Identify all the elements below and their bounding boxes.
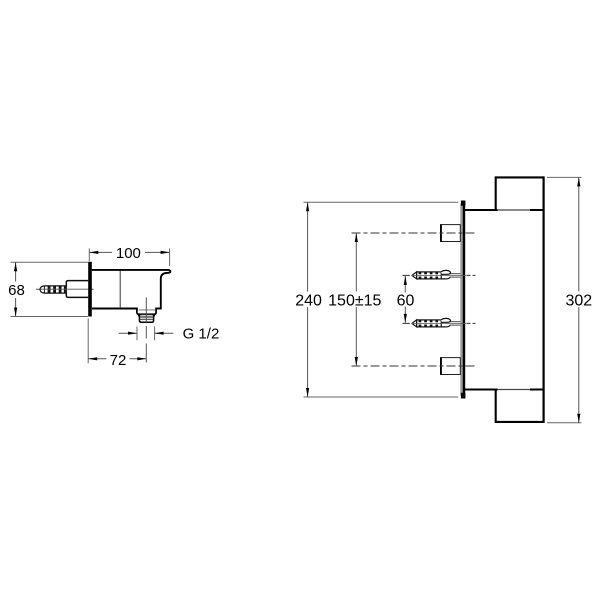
body: right edge bbox=[542, 176, 544, 423]
body: bottom block bbox=[496, 390, 544, 422]
dimension 240: arrowheads bbox=[306, 202, 309, 211]
dimension 72: dimension line bbox=[88, 358, 106, 360]
dimension 60: arrowheads bbox=[404, 276, 407, 285]
center line: outlet axis bbox=[145, 298, 147, 363]
center line: top tab axis bbox=[352, 232, 475, 234]
dimension 150±15: arrowheads bbox=[355, 233, 358, 242]
dimension 150±15: dimension line bbox=[355, 233, 357, 292]
label G 1/2: arrow left bbox=[119, 332, 138, 334]
wall anchor screw top bbox=[403, 270, 476, 279]
dimension 302: extension line bottom bbox=[547, 422, 582, 424]
dimension 72: extension line left bbox=[87, 319, 89, 364]
svg-text:G 1/2: G 1/2 bbox=[183, 325, 220, 342]
dimension 302: extension line top bbox=[547, 176, 582, 178]
dimension 100: extension line right bbox=[169, 248, 171, 265]
wall plate (side view) bbox=[88, 262, 92, 317]
svg-text:100: 100 bbox=[116, 245, 141, 262]
dimension 100: extension line left bbox=[88, 248, 90, 261]
outlet nozzle: threaded tip bbox=[139, 316, 153, 322]
inlet pipe: thread bands bbox=[48, 286, 67, 293]
dimension 100: dimension line bbox=[89, 251, 112, 253]
dimension 68: dimension line bbox=[15, 262, 17, 281]
body: bottom inner edge bbox=[464, 389, 498, 391]
outlet nozzle: flange inner line bbox=[139, 309, 156, 311]
dimension 240: dimension line bbox=[307, 202, 309, 291]
outlet nozzle: flange bbox=[137, 309, 156, 315]
spout body: bottom edge bbox=[92, 308, 138, 310]
dimension 302: arrowheads bbox=[577, 177, 580, 186]
spout body: top edge with waterfall lip bbox=[92, 270, 171, 309]
dimension 68: extension line top bbox=[11, 261, 89, 263]
dimension 60: dimension line bbox=[404, 276, 406, 293]
spout body: internal divider line bbox=[119, 271, 121, 309]
svg-text:72: 72 bbox=[110, 352, 127, 369]
dimension 100: arrowheads bbox=[89, 251, 98, 254]
label G 1/2: extension line right bbox=[154, 327, 156, 341]
mounting plate: bottom cap bbox=[461, 393, 466, 399]
svg-text:302: 302 bbox=[565, 293, 592, 310]
mounting plate: gray face bbox=[460, 204, 463, 396]
dimension 240: extension line bottom bbox=[304, 396, 459, 398]
mounting tab top bbox=[441, 225, 461, 242]
dimension 68: arrowheads bbox=[14, 262, 17, 271]
center line: bottom tab axis bbox=[352, 365, 475, 367]
mounting tab bottom bbox=[441, 358, 461, 375]
outlet nozzle: thread lines bbox=[140, 317, 154, 319]
center line: inlet pipe axis bbox=[36, 288, 94, 290]
inlet pipe: threaded section outline bbox=[40, 286, 66, 293]
svg-text:68: 68 bbox=[8, 282, 25, 299]
outlet nozzle: neck ring bbox=[138, 313, 154, 315]
dimension 240: extension line top bbox=[304, 201, 459, 203]
spout body: bottom edge right segment bbox=[155, 308, 162, 310]
wall anchor screw bottom bbox=[403, 318, 476, 327]
mounting plate: black edge bbox=[463, 201, 465, 399]
svg-text:240: 240 bbox=[295, 293, 322, 310]
dimension 72: arrowheads bbox=[88, 357, 97, 360]
mounting plate: top cap bbox=[461, 201, 466, 206]
inlet pipe: center line through threads bbox=[41, 288, 89, 290]
label G 1/2: extension line left bbox=[136, 327, 138, 341]
dimension 68: extension line bottom bbox=[11, 316, 89, 318]
svg-text:150±15: 150±15 bbox=[328, 293, 381, 310]
dimension 302: dimension line bbox=[578, 177, 580, 291]
body: top inner edge bbox=[464, 209, 498, 211]
label G 1/2: arrow right bbox=[155, 332, 174, 334]
inlet pipe: connector cylinder bbox=[66, 281, 88, 298]
svg-text:60: 60 bbox=[397, 293, 415, 310]
inlet pipe: tip base line bbox=[43, 286, 45, 293]
body: top block bbox=[496, 177, 544, 210]
